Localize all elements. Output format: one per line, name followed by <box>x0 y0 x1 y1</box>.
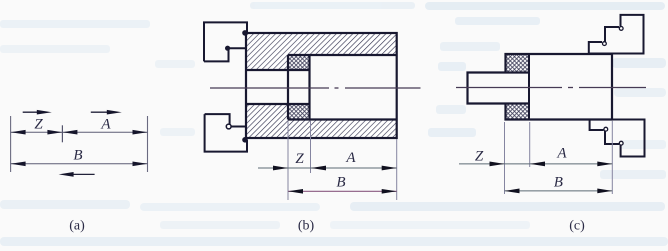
insert right face <box>308 55 310 120</box>
dimension line Z-A <box>11 131 148 133</box>
svg-text:Z: Z <box>295 151 304 167</box>
extension line chuck face <box>611 121 613 194</box>
top jaw notch 2 <box>619 27 623 31</box>
svg-text:A: A <box>345 150 356 166</box>
arrow B left (b) <box>288 189 303 194</box>
arrow B right (b) <box>382 189 397 194</box>
arrow B left <box>11 161 26 166</box>
dimension line B (b) <box>288 190 397 192</box>
extension line left <box>10 116 12 172</box>
big bore bottom edge <box>288 118 397 120</box>
top jaw relief dot inner <box>225 46 230 51</box>
centerline (b) <box>210 87 421 89</box>
arrow B right <box>133 161 148 166</box>
hatched body bottom strip <box>246 120 397 139</box>
collar right face <box>528 54 530 120</box>
arrow Z right <box>47 130 62 135</box>
arrow Z (b) outside pointing right <box>273 166 288 171</box>
hatched body left upper block <box>246 55 288 70</box>
bottom-right jaw <box>590 120 645 157</box>
arrow A right <box>133 130 148 135</box>
big bore top edge <box>288 54 397 56</box>
svg-text:Z: Z <box>475 149 484 165</box>
svg-text:A: A <box>556 146 567 162</box>
collar upper crosshatch <box>506 54 530 73</box>
arrow A right (b) <box>382 166 397 171</box>
arrow A left <box>62 130 77 135</box>
top-right jaw <box>589 15 644 54</box>
svg-text:A: A <box>100 117 111 133</box>
insert upper square crosshatch <box>288 55 310 70</box>
centerline (c) <box>456 87 646 89</box>
dimension line B (c) <box>505 190 613 192</box>
extension line body right <box>396 139 398 200</box>
hatched body left lower block <box>246 104 288 120</box>
arrow A left (c) <box>530 162 545 167</box>
arrow Z left <box>11 130 26 135</box>
middle tick <box>61 125 63 142</box>
svg-text:Z: Z <box>34 117 43 133</box>
arrow A left (b) <box>311 166 326 171</box>
shaft outline <box>468 73 530 104</box>
small bore bottom edge <box>246 103 310 105</box>
bottom-left jaw <box>205 114 247 152</box>
svg-text:(c): (c) <box>569 219 585 234</box>
hatched body top strip <box>246 33 397 55</box>
arrow B right (c) <box>597 189 612 194</box>
bottom jaw relief dot inner <box>226 124 231 129</box>
extension line insert left <box>287 121 289 200</box>
extension line right <box>147 116 149 172</box>
motion arrow top A (right) <box>91 111 114 113</box>
svg-text:(b): (b) <box>298 219 315 234</box>
svg-text:(a): (a) <box>69 219 85 234</box>
motion arrow bottom (left) <box>72 173 95 175</box>
top jaw relief dot at body corner <box>242 30 248 36</box>
svg-text:B: B <box>73 148 82 164</box>
collar lower crosshatch <box>506 104 530 120</box>
motion arrow top Z (right) <box>23 111 44 113</box>
arrow B left (c) <box>505 189 520 194</box>
insert lower square crosshatch <box>288 104 310 120</box>
body outline <box>246 33 397 138</box>
big cylinder outline <box>506 54 613 120</box>
extension line collar left <box>504 122 506 194</box>
svg-text:B: B <box>554 174 563 190</box>
extension line collar right <box>529 122 531 167</box>
top jaw notch 1 <box>603 42 607 46</box>
small bore top edge <box>246 69 310 71</box>
arrow Z (c) outside pointing right <box>490 162 505 167</box>
bottom jaw notch 2 <box>619 141 623 145</box>
bottom jaw relief dot at body corner <box>242 137 248 143</box>
dimension line Z-A (b) <box>258 167 397 169</box>
extension line insert right <box>310 121 312 173</box>
arrow A right (c) <box>597 162 612 167</box>
top-left jaw <box>204 22 247 61</box>
dimension line Z-A (c) <box>459 163 612 165</box>
dimension line B <box>11 163 148 165</box>
insert left face <box>287 55 289 120</box>
bottom jaw notch 1 <box>604 127 608 131</box>
svg-text:B: B <box>336 175 345 191</box>
